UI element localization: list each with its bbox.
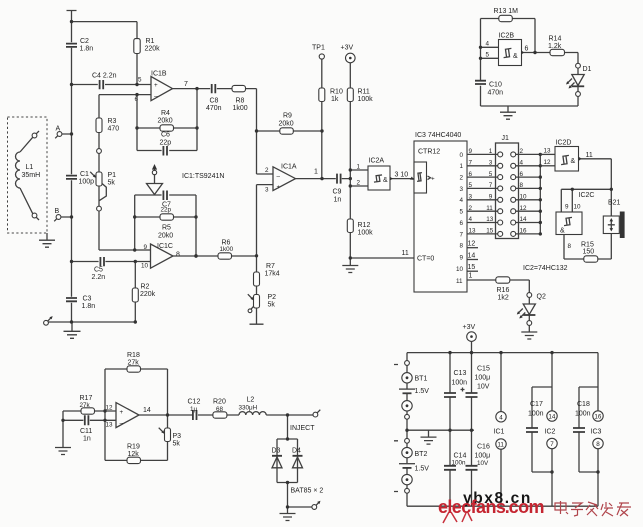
svg-text:B21: B21 (608, 200, 621, 207)
svg-text:C8: C8 (210, 98, 219, 105)
svg-text:elecfans.com: elecfans.com (438, 497, 544, 517)
svg-text:P2: P2 (268, 294, 277, 301)
svg-text:IC3 74HC4040: IC3 74HC4040 (415, 132, 461, 139)
svg-text:10: 10 (574, 204, 582, 211)
svg-text:IC2D: IC2D (556, 140, 572, 147)
svg-text:1: 1 (314, 169, 318, 176)
svg-text:10: 10 (141, 263, 149, 270)
svg-text:5k: 5k (268, 302, 276, 309)
svg-text:100n: 100n (575, 411, 591, 418)
svg-text:20k0: 20k0 (158, 118, 173, 125)
svg-text:100n: 100n (452, 380, 468, 387)
svg-text:+3V: +3V (341, 45, 354, 52)
svg-text:11: 11 (486, 205, 493, 212)
svg-text:100μ: 100μ (475, 375, 491, 382)
svg-text:330μH: 330μH (239, 405, 258, 412)
svg-text:+: + (154, 82, 158, 89)
svg-text:IC3: IC3 (591, 429, 602, 436)
svg-text:6: 6 (525, 46, 529, 53)
svg-text:22p: 22p (161, 207, 172, 214)
svg-text:16: 16 (594, 414, 602, 421)
svg-text:9: 9 (489, 194, 493, 201)
svg-text:IC1C: IC1C (157, 243, 173, 250)
svg-text:22p: 22p (160, 140, 172, 147)
svg-text:CT=0: CT=0 (417, 256, 434, 263)
svg-text:13: 13 (486, 216, 494, 223)
svg-text:D4: D4 (292, 447, 301, 454)
svg-text:C2: C2 (80, 38, 89, 45)
svg-text:1.5V: 1.5V (415, 388, 430, 395)
svg-text:–: – (154, 93, 158, 100)
svg-text:–: – (277, 173, 281, 180)
svg-text:CTR12: CTR12 (418, 149, 440, 156)
svg-text:15: 15 (486, 228, 494, 235)
svg-text:C13: C13 (454, 370, 467, 377)
svg-text:10V: 10V (477, 460, 489, 467)
svg-text:R4: R4 (161, 110, 170, 117)
svg-text:11: 11 (402, 250, 409, 257)
svg-text:C5: C5 (94, 267, 103, 274)
svg-text:4: 4 (460, 197, 464, 204)
svg-text:100k: 100k (358, 96, 374, 103)
svg-text:P3: P3 (173, 433, 182, 440)
svg-text:7: 7 (550, 441, 554, 448)
svg-text:35mH: 35mH (22, 172, 41, 179)
svg-text:IC1:TS9241N: IC1:TS9241N (182, 173, 224, 180)
svg-text:220k: 220k (145, 46, 161, 53)
svg-text:C3: C3 (83, 296, 92, 303)
svg-text:6: 6 (469, 171, 473, 178)
svg-text:1.8n: 1.8n (82, 303, 96, 310)
svg-text:8: 8 (176, 252, 180, 259)
svg-text:1.2k: 1.2k (548, 43, 562, 50)
svg-text:INJECT: INJECT (290, 425, 315, 432)
svg-text:100p: 100p (79, 179, 95, 186)
svg-text:C15: C15 (477, 366, 490, 373)
svg-text:IC2B: IC2B (499, 33, 515, 40)
svg-text:470n: 470n (206, 105, 222, 112)
svg-text:3: 3 (489, 160, 493, 167)
svg-text:8: 8 (568, 243, 572, 250)
svg-text:5: 5 (138, 77, 142, 84)
svg-text:4: 4 (520, 160, 524, 167)
svg-text:15: 15 (468, 264, 476, 271)
svg-text:12: 12 (106, 405, 114, 412)
svg-text:5: 5 (460, 209, 464, 216)
svg-text:1k2: 1k2 (498, 295, 509, 302)
svg-text:B: B (55, 208, 60, 215)
svg-text:5k: 5k (173, 441, 181, 448)
svg-text:10: 10 (456, 266, 464, 273)
svg-text:R14: R14 (549, 36, 562, 43)
svg-text:R10: R10 (330, 89, 343, 96)
svg-text:&: & (513, 53, 518, 60)
svg-text:9: 9 (565, 204, 569, 211)
svg-text:5: 5 (469, 182, 473, 189)
svg-text:IC2C: IC2C (579, 192, 595, 199)
svg-text:3: 3 (265, 187, 269, 194)
svg-text:BT1: BT1 (415, 376, 428, 383)
svg-text:1: 1 (489, 148, 493, 155)
svg-text:IC2: IC2 (545, 429, 556, 436)
svg-text:R16: R16 (497, 287, 510, 294)
svg-text:6: 6 (520, 171, 524, 178)
svg-text:2: 2 (265, 167, 269, 174)
svg-text:2: 2 (520, 148, 524, 155)
svg-text:11: 11 (497, 442, 504, 449)
svg-text:IC1: IC1 (494, 429, 505, 436)
svg-text:20k0: 20k0 (158, 233, 173, 240)
svg-text:C6: C6 (161, 132, 170, 139)
svg-text:D3: D3 (272, 447, 281, 454)
svg-text:C14: C14 (454, 453, 467, 460)
svg-text:4: 4 (469, 216, 473, 223)
svg-text:A: A (56, 126, 61, 133)
svg-text:Q2: Q2 (537, 294, 546, 301)
svg-text:R13 1M: R13 1M (494, 8, 519, 15)
svg-text:2.2n: 2.2n (92, 274, 106, 281)
svg-text:2: 2 (357, 180, 361, 187)
svg-text:10: 10 (520, 194, 528, 201)
svg-text:1n: 1n (334, 197, 342, 204)
svg-text:R15: R15 (581, 242, 594, 249)
svg-text:1: 1 (460, 163, 464, 170)
svg-text:5: 5 (489, 171, 493, 178)
svg-text:C18: C18 (577, 401, 590, 408)
svg-text:3: 3 (469, 194, 473, 201)
svg-text:BT2: BT2 (415, 451, 428, 458)
svg-text:IC2A: IC2A (369, 158, 385, 165)
svg-text:7: 7 (184, 81, 188, 88)
svg-text:C1: C1 (80, 171, 89, 178)
svg-text:11: 11 (456, 278, 463, 285)
svg-text:5k: 5k (108, 180, 116, 187)
svg-text:1k00: 1k00 (220, 246, 234, 253)
svg-text:9: 9 (460, 254, 464, 261)
svg-text:1.5V: 1.5V (415, 466, 430, 473)
svg-text:P1: P1 (108, 172, 117, 179)
svg-text:0: 0 (460, 152, 464, 159)
svg-text:L1: L1 (26, 164, 34, 171)
svg-text:12: 12 (520, 205, 528, 212)
svg-text:11: 11 (586, 152, 593, 159)
svg-text:470n: 470n (488, 90, 504, 97)
svg-text:7: 7 (489, 182, 493, 189)
svg-text:100n: 100n (452, 460, 467, 467)
svg-text:R5: R5 (162, 225, 171, 232)
svg-text:13: 13 (469, 228, 477, 235)
svg-text:R20: R20 (213, 399, 226, 406)
svg-text:D1: D1 (583, 66, 592, 73)
svg-text:9: 9 (469, 148, 473, 155)
svg-text:BAT85 × 2: BAT85 × 2 (291, 488, 324, 495)
svg-text:8: 8 (596, 441, 600, 448)
svg-text:1: 1 (469, 273, 473, 280)
svg-text:–: – (120, 420, 124, 427)
svg-text:2: 2 (469, 205, 473, 212)
svg-text:1: 1 (357, 164, 361, 171)
svg-text:IC1B: IC1B (151, 71, 167, 78)
svg-text:&: & (560, 228, 565, 235)
svg-text:1.8n: 1.8n (80, 46, 94, 53)
svg-text:13: 13 (544, 147, 552, 154)
svg-text:IC1A: IC1A (281, 164, 297, 171)
svg-text:8: 8 (520, 182, 524, 189)
svg-text:R2: R2 (141, 284, 150, 291)
svg-text:C9: C9 (333, 189, 342, 196)
svg-text:R19: R19 (127, 444, 140, 451)
svg-text:R7: R7 (266, 263, 275, 270)
svg-text:150: 150 (583, 249, 595, 256)
svg-text:470: 470 (108, 126, 120, 133)
svg-text:R3: R3 (108, 118, 117, 125)
svg-text:&: & (571, 158, 576, 165)
svg-text:+: + (277, 184, 281, 191)
svg-text:TP1: TP1 (312, 45, 325, 52)
svg-text:R9: R9 (283, 113, 292, 120)
svg-text:17k4: 17k4 (265, 271, 280, 278)
svg-text:R18: R18 (127, 352, 140, 359)
svg-text:12: 12 (468, 241, 476, 248)
svg-text:100n: 100n (528, 411, 544, 418)
svg-text:16: 16 (520, 228, 528, 235)
svg-text:1μ: 1μ (190, 406, 198, 413)
svg-text:14: 14 (143, 407, 151, 414)
svg-text:&: & (383, 177, 388, 184)
svg-text:12k: 12k (128, 451, 140, 458)
svg-text:68: 68 (216, 406, 224, 413)
svg-text:20k0: 20k0 (279, 121, 294, 128)
svg-text:10V: 10V (477, 384, 490, 391)
svg-text:12: 12 (544, 159, 552, 166)
svg-text:+: + (120, 409, 124, 416)
svg-text:4: 4 (499, 414, 503, 421)
svg-text:7: 7 (460, 231, 464, 238)
svg-text:R11: R11 (358, 89, 370, 96)
svg-text:L2: L2 (247, 397, 255, 404)
svg-text:5: 5 (486, 52, 490, 59)
svg-text:8: 8 (460, 243, 464, 250)
svg-text:C12: C12 (188, 399, 201, 406)
svg-text:27k: 27k (80, 402, 91, 409)
svg-text:13: 13 (106, 422, 114, 429)
svg-text:C17: C17 (530, 401, 543, 408)
svg-text:1n: 1n (83, 436, 91, 443)
svg-text:3 10: 3 10 (395, 172, 409, 179)
svg-text:C16: C16 (477, 444, 490, 451)
svg-text:3: 3 (460, 186, 464, 193)
svg-text:6: 6 (460, 220, 464, 227)
svg-text:220k: 220k (140, 291, 156, 298)
svg-text:14: 14 (548, 414, 556, 421)
svg-text:R8: R8 (236, 98, 245, 105)
svg-text:14: 14 (468, 252, 476, 259)
svg-text:100k: 100k (358, 230, 374, 237)
svg-text:100μ: 100μ (475, 453, 491, 460)
svg-text:+: + (431, 176, 435, 183)
svg-text:2: 2 (460, 175, 464, 182)
svg-text:R12: R12 (358, 222, 371, 229)
svg-text:+3V: +3V (463, 324, 476, 331)
svg-text:14: 14 (520, 216, 528, 223)
svg-text:7: 7 (469, 160, 473, 167)
svg-text:1k00: 1k00 (233, 105, 248, 112)
svg-text:C10: C10 (489, 82, 502, 89)
svg-text:1k: 1k (331, 96, 339, 103)
svg-text:27k: 27k (128, 360, 140, 367)
svg-text:R1: R1 (146, 38, 155, 45)
svg-text:C11: C11 (80, 428, 92, 435)
svg-text:IC2=74HC132: IC2=74HC132 (523, 265, 568, 272)
svg-text:4: 4 (486, 41, 490, 48)
svg-text:C4 2.2n: C4 2.2n (92, 73, 117, 80)
svg-text:J1: J1 (502, 135, 510, 142)
